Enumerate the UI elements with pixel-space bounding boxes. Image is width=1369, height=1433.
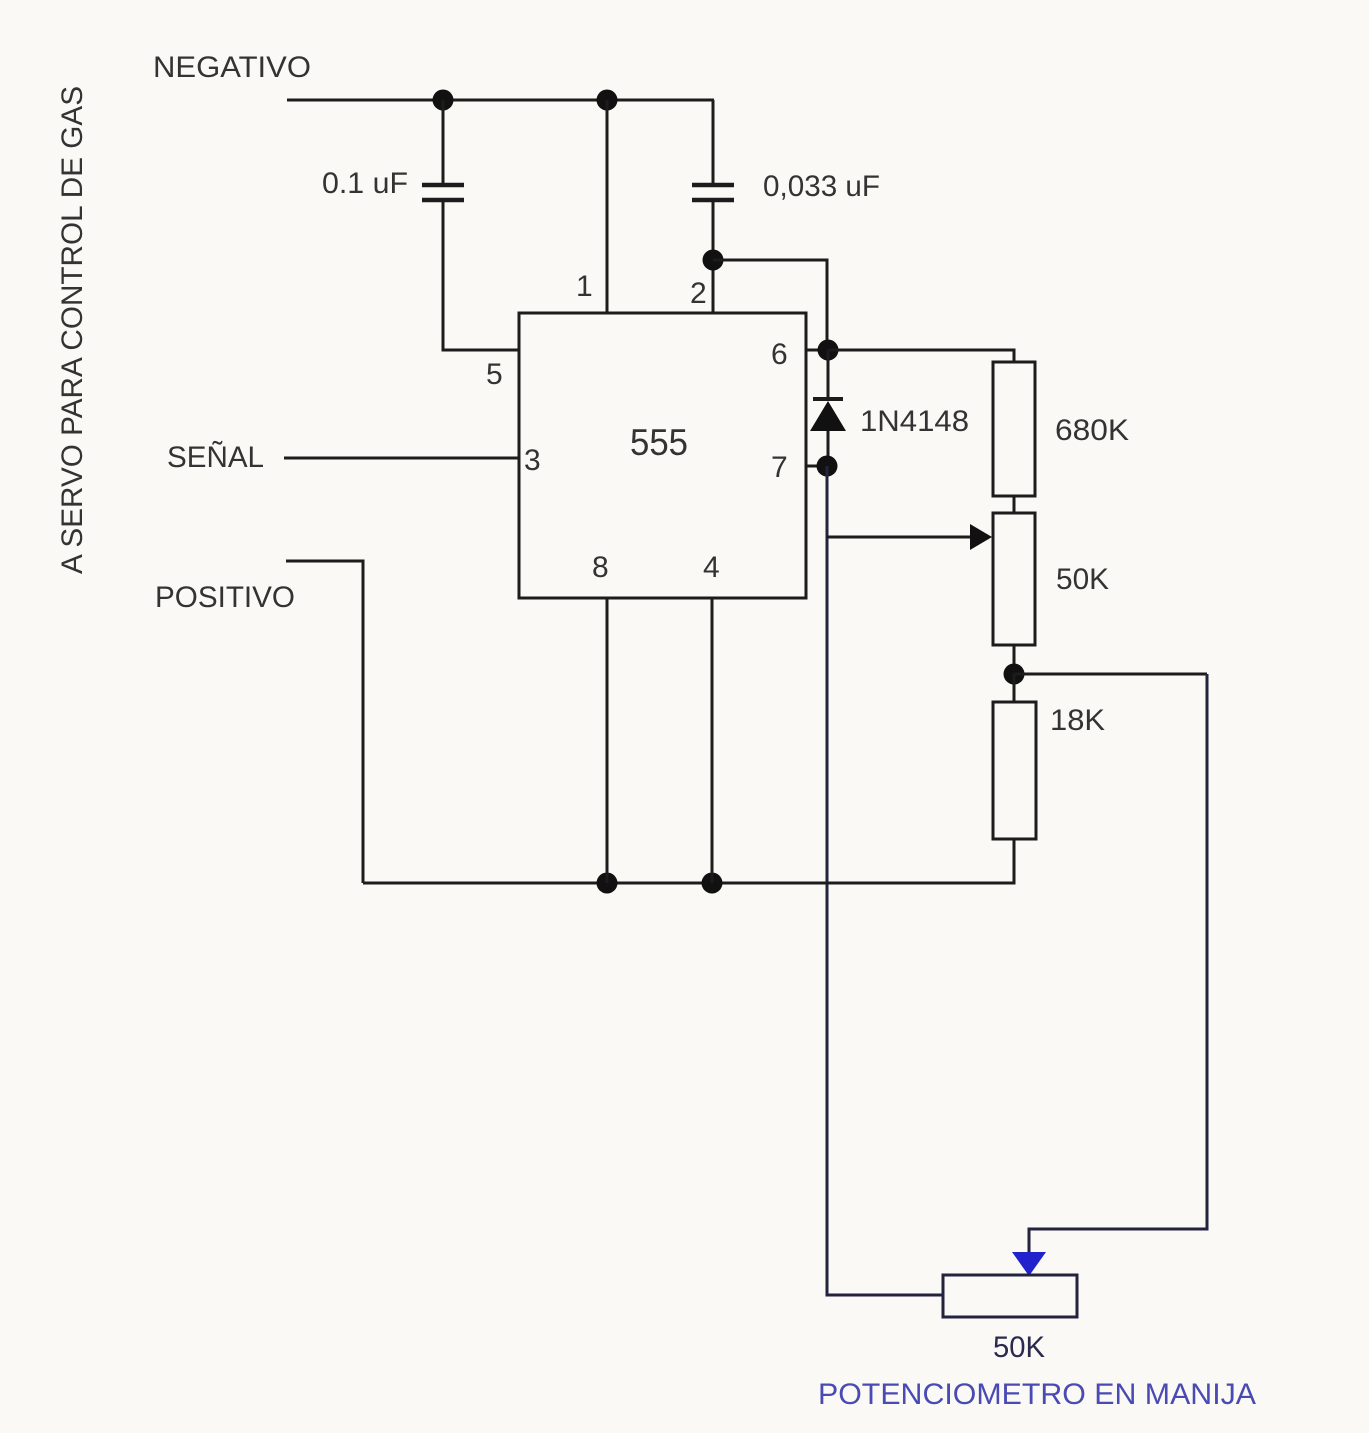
wire C1 top lead	[442, 100, 445, 184]
wire C2 top lead	[712, 100, 715, 184]
wire pin 8 lead	[606, 598, 609, 883]
svg-text:POSITIVO: POSITIVO	[155, 581, 295, 614]
resistor R1 680K	[993, 362, 1035, 496]
svg-text:8: 8	[592, 551, 609, 584]
svg-text:18K: 18K	[1050, 704, 1105, 737]
diode D1 1N4148	[810, 350, 846, 466]
resistor R3 18K	[993, 702, 1036, 839]
svg-text:1: 1	[576, 270, 593, 303]
wire R3 top stub	[1013, 674, 1016, 702]
svg-text:680K: 680K	[1055, 414, 1129, 447]
wire discharge column down to pot	[827, 466, 943, 1295]
svg-text:6: 6	[771, 338, 788, 371]
svg-text:POTENCIOMETRO EN MANIJA: POTENCIOMETRO EN MANIJA	[818, 1378, 1256, 1411]
wire R1-R2 stub	[1013, 496, 1016, 513]
wire pin 6 stub	[806, 349, 830, 352]
potentiometer P1 body	[943, 1275, 1077, 1317]
svg-text:A SERVO PARA CONTROL DE GAS: A SERVO PARA CONTROL DE GAS	[56, 86, 89, 574]
wire pin 4 lead	[711, 598, 714, 883]
op-amp U1 555 IC body	[519, 313, 806, 598]
svg-text:50K: 50K	[993, 1331, 1045, 1364]
wire negativo rail	[287, 99, 714, 102]
wire C1 bottom lead to pin 5	[443, 200, 519, 350]
junction dot pin7	[817, 456, 838, 477]
capacitor C1 0.1 uF	[422, 185, 464, 200]
svg-text:1N4148: 1N4148	[860, 405, 969, 438]
svg-text:0.1 uF: 0.1 uF	[322, 167, 408, 200]
svg-text:7: 7	[771, 451, 788, 484]
wire pin 3 signal lead	[284, 457, 519, 460]
wire C2 bottom lead to pin 2	[712, 200, 715, 313]
wire pin 1 lead	[606, 100, 609, 313]
arrow pot wiper	[1012, 1252, 1046, 1276]
junction dot R2/R3 node	[1004, 664, 1025, 685]
svg-text:3: 3	[524, 444, 541, 477]
svg-text:555: 555	[630, 422, 688, 463]
wire wiper arm to R2	[827, 536, 972, 539]
junction dot pin6	[818, 340, 839, 361]
svg-text:2: 2	[690, 277, 707, 310]
junction dot pin8/rail	[597, 873, 618, 894]
resistor R2 50K	[993, 513, 1035, 645]
wire R3 bottom to ground rail	[363, 839, 1014, 883]
wire R2 bottom stub	[1013, 645, 1016, 674]
wire R2 node to right column	[1014, 673, 1207, 676]
junction dot pin2 node	[703, 250, 724, 271]
svg-text:NEGATIVO: NEGATIVO	[153, 51, 311, 84]
capacitor C2 0,033 uF	[692, 185, 734, 200]
wire pin6 to R1	[828, 350, 1014, 362]
arrow wiper into R2	[970, 524, 992, 550]
junction dot C1/rail	[433, 90, 454, 111]
wire pin 7 stub	[806, 465, 830, 468]
svg-text:50K: 50K	[1056, 563, 1109, 596]
svg-text:5: 5	[486, 358, 503, 391]
junction dot pin4/rail	[702, 873, 723, 894]
wire pin2 node to threshold column	[713, 260, 827, 350]
svg-text:4: 4	[703, 551, 720, 584]
wire right column to pot top	[1029, 674, 1207, 1254]
junction dot pin1/rail	[597, 90, 618, 111]
svg-text:0,033 uF: 0,033 uF	[763, 170, 880, 203]
wire positivo lead	[286, 561, 363, 883]
svg-text:SEÑAL: SEÑAL	[167, 440, 264, 474]
